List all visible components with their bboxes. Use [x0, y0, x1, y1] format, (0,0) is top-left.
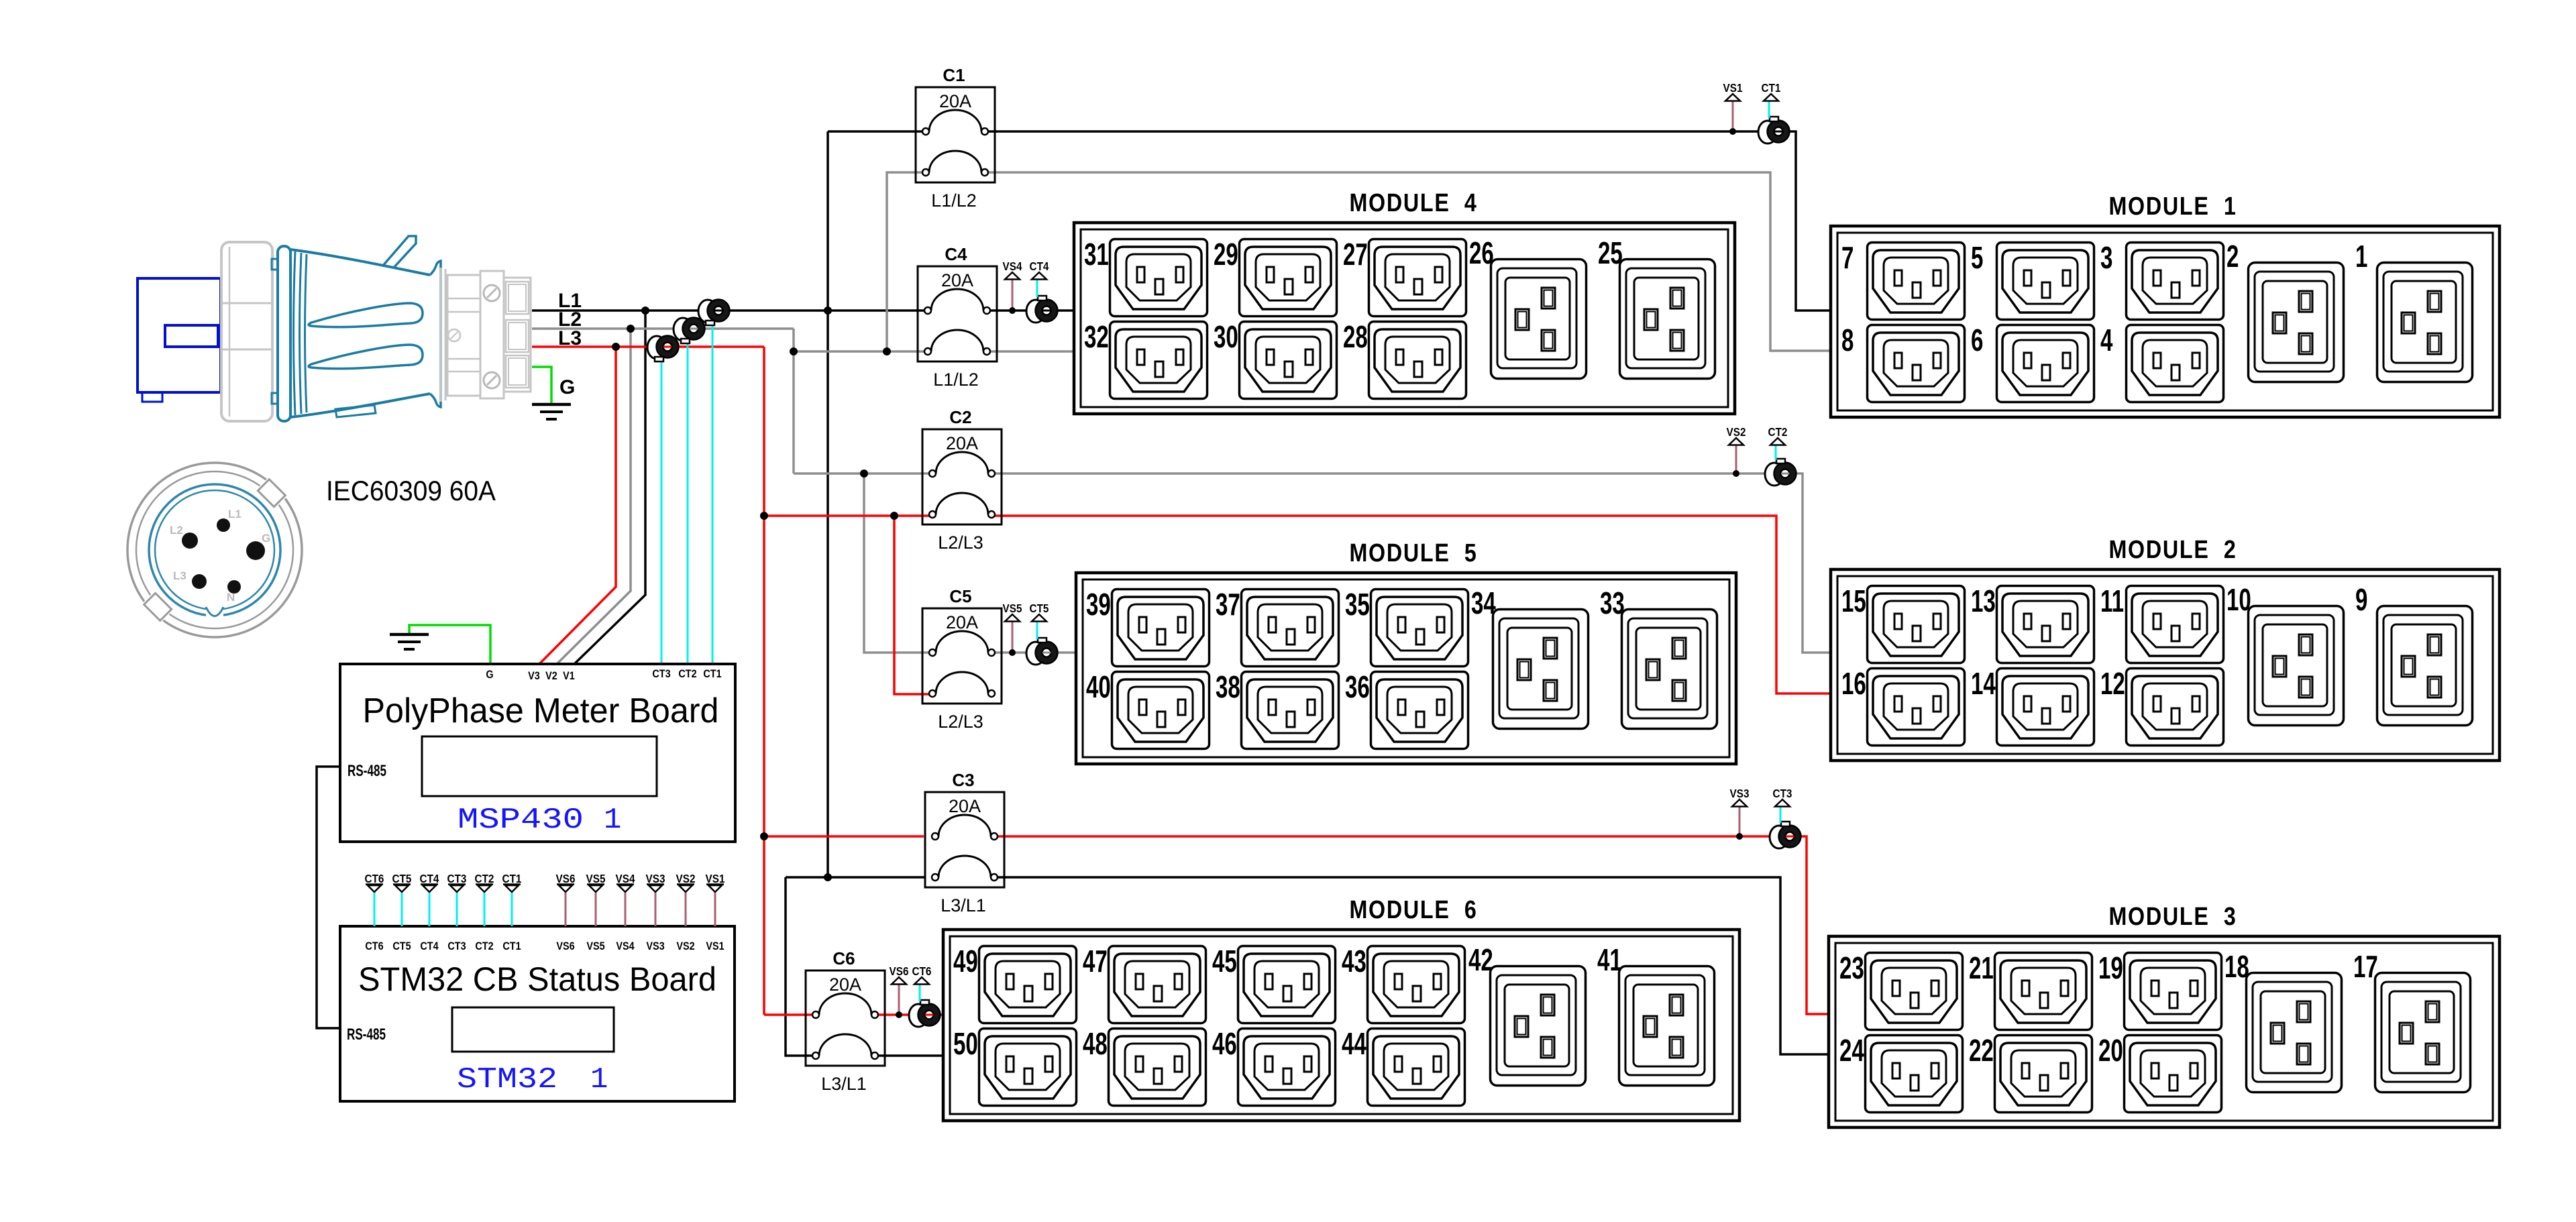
svg-text:CT5: CT5 — [392, 872, 412, 885]
svg-text:4: 4 — [2100, 324, 2113, 357]
svg-text:CT4: CT4 — [420, 872, 440, 885]
svg-text:18: 18 — [2224, 950, 2249, 984]
svg-text:L1: L1 — [228, 508, 241, 520]
svg-text:43: 43 — [1342, 945, 1366, 979]
svg-text:13: 13 — [1971, 585, 1996, 618]
svg-text:CT2: CT2 — [475, 872, 494, 885]
svg-text:41: 41 — [1597, 944, 1622, 977]
svg-text:20A: 20A — [939, 91, 971, 111]
svg-text:39: 39 — [1086, 588, 1111, 622]
svg-text:CT3: CT3 — [447, 872, 467, 885]
svg-text:29: 29 — [1214, 238, 1238, 272]
svg-text:CT1: CT1 — [1762, 81, 1781, 95]
svg-text:CT6: CT6 — [365, 872, 384, 885]
svg-text:G: G — [486, 669, 493, 681]
svg-text:VS1: VS1 — [1723, 81, 1743, 95]
svg-text:31: 31 — [1084, 238, 1109, 272]
svg-text:VS2: VS2 — [676, 872, 696, 885]
svg-text:23: 23 — [1839, 952, 1864, 985]
svg-text:MODULE 5: MODULE 5 — [1349, 539, 1477, 567]
svg-text:19: 19 — [2098, 952, 2123, 985]
svg-text:VS3: VS3 — [646, 940, 665, 952]
svg-text:VS6: VS6 — [556, 872, 576, 885]
svg-text:49: 49 — [953, 945, 978, 979]
svg-text:CT6: CT6 — [365, 940, 383, 952]
svg-text:MODULE 4: MODULE 4 — [1349, 189, 1477, 217]
svg-text:MODULE 3: MODULE 3 — [2108, 903, 2237, 931]
svg-text:14: 14 — [1971, 667, 1996, 701]
svg-text:34: 34 — [1471, 587, 1496, 620]
svg-text:45: 45 — [1212, 945, 1237, 979]
svg-text:35: 35 — [1345, 588, 1370, 622]
svg-text:VS6: VS6 — [556, 940, 575, 952]
svg-text:CT3: CT3 — [652, 668, 670, 680]
svg-text:L3/L1: L3/L1 — [941, 895, 986, 915]
svg-text:CT3: CT3 — [1773, 787, 1792, 800]
svg-text:38: 38 — [1216, 671, 1240, 704]
svg-text:48: 48 — [1083, 1027, 1108, 1061]
svg-text:L3/L1: L3/L1 — [821, 1074, 867, 1094]
svg-text:20A: 20A — [946, 433, 978, 453]
svg-text:VS5: VS5 — [586, 872, 606, 885]
svg-text:RS-485: RS-485 — [347, 762, 386, 780]
svg-text:MODULE 1: MODULE 1 — [2108, 192, 2237, 221]
svg-text:CT1: CT1 — [502, 940, 521, 952]
svg-text:5: 5 — [1971, 241, 1983, 275]
svg-text:11: 11 — [2100, 585, 2124, 618]
svg-text:STM32: STM32 — [457, 1063, 557, 1097]
svg-text:VS3: VS3 — [646, 872, 665, 885]
svg-text:24: 24 — [1839, 1034, 1864, 1068]
svg-text:10: 10 — [2226, 584, 2251, 617]
svg-text:32: 32 — [1084, 321, 1109, 354]
svg-text:22: 22 — [1969, 1034, 1994, 1068]
svg-text:21: 21 — [1969, 952, 1994, 985]
svg-text:17: 17 — [2353, 950, 2378, 984]
svg-text:PolyPhase Meter Board: PolyPhase Meter Board — [363, 691, 719, 730]
svg-text:C1: C1 — [943, 65, 965, 85]
svg-text:VS2: VS2 — [1727, 425, 1746, 439]
svg-text:CT1: CT1 — [703, 668, 721, 680]
svg-text:1: 1 — [590, 1063, 608, 1097]
svg-text:G: G — [262, 532, 270, 545]
svg-text:CT4: CT4 — [1030, 260, 1050, 273]
svg-text:CT5: CT5 — [1030, 602, 1049, 615]
svg-text:CT2: CT2 — [1768, 425, 1788, 439]
svg-text:VS4: VS4 — [616, 872, 636, 885]
svg-text:L1/L2: L1/L2 — [933, 370, 979, 390]
svg-text:20A: 20A — [829, 975, 861, 995]
svg-text:33: 33 — [1600, 587, 1625, 620]
svg-text:20A: 20A — [946, 612, 978, 632]
svg-text:V2: V2 — [545, 670, 557, 682]
svg-text:2: 2 — [2226, 240, 2239, 274]
svg-text:16: 16 — [1841, 667, 1866, 701]
svg-text:VS4: VS4 — [1003, 260, 1023, 273]
svg-text:CT2: CT2 — [678, 668, 696, 680]
svg-text:27: 27 — [1343, 238, 1368, 272]
svg-text:20: 20 — [2098, 1034, 2123, 1068]
svg-text:VS5: VS5 — [1003, 602, 1022, 615]
svg-text:L1/L2: L1/L2 — [931, 190, 977, 211]
svg-text:C4: C4 — [945, 244, 967, 264]
svg-text:CT5: CT5 — [392, 940, 411, 952]
svg-text:CT4: CT4 — [420, 940, 438, 952]
svg-text:1: 1 — [2355, 240, 2367, 274]
svg-text:MODULE 2: MODULE 2 — [2108, 536, 2237, 564]
svg-text:25: 25 — [1598, 237, 1623, 270]
svg-text:CT2: CT2 — [475, 940, 493, 952]
svg-text:VS5: VS5 — [586, 940, 605, 952]
svg-text:V1: V1 — [563, 670, 575, 682]
svg-text:C6: C6 — [833, 948, 855, 968]
svg-text:7: 7 — [1841, 241, 1854, 275]
svg-text:46: 46 — [1212, 1027, 1237, 1061]
svg-text:CT1: CT1 — [502, 872, 522, 885]
svg-text:MODULE 6: MODULE 6 — [1349, 896, 1477, 924]
svg-text:VS3: VS3 — [1730, 787, 1750, 800]
svg-text:G: G — [559, 376, 575, 398]
svg-text:15: 15 — [1841, 585, 1866, 618]
svg-text:50: 50 — [953, 1027, 978, 1061]
svg-text:L3: L3 — [558, 327, 582, 349]
svg-text:V3: V3 — [528, 670, 540, 682]
svg-text:26: 26 — [1469, 237, 1494, 270]
svg-text:L2: L2 — [170, 524, 183, 537]
svg-text:STM32 CB Status Board: STM32 CB Status Board — [358, 960, 716, 998]
svg-text:CT3: CT3 — [447, 940, 466, 952]
svg-text:N: N — [227, 591, 235, 604]
svg-text:30: 30 — [1214, 321, 1238, 354]
svg-text:L3: L3 — [173, 569, 186, 582]
svg-text:RS-485: RS-485 — [347, 1025, 386, 1044]
svg-text:VS1: VS1 — [706, 872, 725, 885]
svg-text:IEC60309 60A: IEC60309 60A — [326, 475, 496, 506]
svg-text:47: 47 — [1083, 945, 1108, 979]
svg-text:VS2: VS2 — [676, 940, 695, 952]
svg-text:20A: 20A — [949, 796, 981, 816]
svg-text:6: 6 — [1971, 324, 1983, 357]
svg-text:12: 12 — [2100, 667, 2125, 701]
svg-text:28: 28 — [1343, 321, 1368, 354]
svg-text:C3: C3 — [952, 770, 974, 790]
svg-text:40: 40 — [1086, 671, 1111, 704]
svg-text:L2/L3: L2/L3 — [938, 712, 983, 732]
svg-text:37: 37 — [1216, 588, 1240, 622]
svg-text:C2: C2 — [949, 407, 971, 427]
svg-text:VS4: VS4 — [616, 940, 635, 952]
svg-text:VS6: VS6 — [890, 964, 909, 978]
svg-text:MSP430: MSP430 — [458, 803, 584, 837]
svg-text:42: 42 — [1468, 944, 1493, 977]
svg-text:8: 8 — [1841, 324, 1854, 357]
svg-text:CT6: CT6 — [912, 964, 932, 978]
svg-text:44: 44 — [1342, 1027, 1366, 1061]
svg-text:L2/L3: L2/L3 — [938, 533, 983, 553]
svg-text:C5: C5 — [949, 586, 971, 606]
svg-text:VS1: VS1 — [706, 940, 724, 952]
svg-text:3: 3 — [2100, 241, 2112, 275]
svg-text:20A: 20A — [941, 270, 973, 290]
svg-text:9: 9 — [2355, 584, 2367, 617]
svg-text:1: 1 — [604, 803, 621, 837]
svg-text:36: 36 — [1345, 671, 1370, 704]
